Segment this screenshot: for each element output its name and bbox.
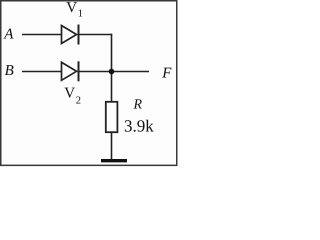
svg-text:V: V (64, 86, 75, 102)
wire B to diode V2 anode (22, 71, 62, 73)
wire resistor to ground (111, 132, 113, 160)
wire diode V2 cathode to output F (79, 71, 149, 73)
svg-text:3.9k: 3.9k (124, 117, 154, 136)
svg-text:B: B (5, 63, 14, 79)
resistor R body (106, 102, 118, 132)
junction node dot (109, 69, 115, 75)
svg-text:V: V (66, 0, 77, 16)
label V1 (66, 0, 83, 20)
wire vertical rail from corner to resistor (111, 34, 113, 102)
svg-text:F: F (161, 66, 172, 82)
border frame (1, 1, 177, 166)
svg-text:R: R (133, 98, 143, 113)
svg-text:2: 2 (76, 96, 81, 107)
svg-text:A: A (3, 27, 14, 43)
svg-text:1: 1 (78, 9, 83, 20)
label V2 (64, 86, 81, 107)
diode V1 (62, 25, 79, 45)
wire A to diode V1 anode (22, 34, 62, 36)
diode V2 (62, 61, 79, 81)
wire diode V1 cathode to top corner (79, 34, 112, 36)
ground (101, 159, 127, 162)
